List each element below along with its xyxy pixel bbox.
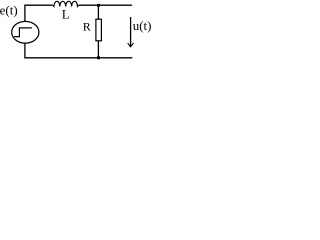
resistor R1 body — [96, 19, 102, 41]
arrowhead — [128, 43, 134, 47]
node junction top — [97, 4, 100, 7]
resistor R1 top lead — [97, 5, 99, 19]
voltage source U1 ellipse — [12, 21, 39, 43]
svg-text:L: L — [62, 7, 70, 22]
node junction bottom — [97, 56, 100, 59]
svg-text:R: R — [83, 20, 91, 34]
wire top rail right segment — [79, 4, 132, 6]
inductor L1 coil (4 humps) — [53, 1, 79, 6]
output voltage arrow u(t) shaft — [130, 17, 132, 46]
resistor R1 bottom lead — [97, 41, 99, 58]
svg-text:u(t): u(t) — [133, 18, 152, 33]
step-waveform symbol inside source — [14, 28, 32, 37]
wire left rail bottom + bottom rail — [25, 43, 132, 58]
svg-text:e(t): e(t) — [0, 2, 18, 17]
wire top rail left segment — [25, 5, 53, 21]
